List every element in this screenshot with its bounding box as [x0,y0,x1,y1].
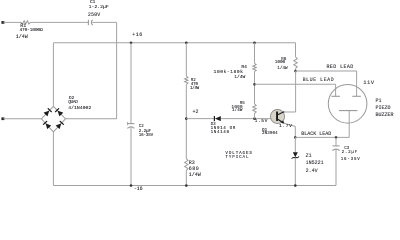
label 1N914 OR [211,127,236,131]
junction: R6 / red lead / collector [294,70,297,73]
label R3 [189,161,195,166]
wire: collector vertical [295,71,297,112]
resistor R3 [185,159,188,171]
label C1 [90,1,95,5]
label +16 [132,33,143,38]
label VOLTAGES [225,152,252,156]
wire: emitter out of Q1 [284,123,295,126]
label R1 [20,24,26,29]
wire: bridge - output down to -16 rail [52,132,54,186]
Q1 collector lead inside [278,112,284,115]
resistor R2 [185,76,188,85]
terminal dot: top AC input [1,21,4,24]
label P1 [376,99,382,104]
wire: R3 to -16 rail [185,171,187,186]
label R6 [281,58,286,62]
wire: rail to R2 [185,43,187,76]
label C3 [344,147,349,151]
label C2 [139,125,144,129]
capacitor C2 [127,123,134,125]
wire: bottom input to bridge left corner [4,118,42,120]
label 1000 [275,61,285,65]
diode D3 [213,116,215,121]
label 2.2uF [342,151,358,155]
label BLACK LEAD [301,132,331,137]
junction: C3 tap on black lead [335,136,338,139]
label 11V [363,80,374,86]
label 1/4W [190,87,199,91]
label 1/4W [234,76,245,81]
label 1-2.2uF [89,6,109,11]
label R2 [191,79,196,83]
wire: red lead into piezo [356,71,358,96]
label 1.5V [255,120,268,125]
label 470-1000ohm [20,29,43,34]
wire: bridge right corner to vertical [66,118,117,120]
resistor R6 [294,57,297,69]
zener Z1 1N5221 [293,152,298,157]
label D3 [211,123,216,127]
capacitor C3 [332,145,339,147]
label 1N4148 [211,131,230,135]
label 2N3904 [262,132,278,136]
label 4/1N4002 [68,107,91,112]
label 680 [189,167,200,172]
wire: emitter down to black node [294,126,296,137]
resistor R4 [253,63,256,71]
junction: R4/R5 node feeding blue lead [253,83,256,86]
label TYPICAL [225,156,249,160]
wire: vertical from C1 down to bridge AC input (crosses +16 rail) [116,22,118,118]
label 1.7V [279,125,292,130]
label 250V [88,13,100,18]
capacitor C1 [87,20,89,25]
label BUZZER [376,113,394,118]
wire: D3 to Q1 base [221,118,276,120]
label 1000 [232,106,243,110]
label 2.4V [306,169,318,174]
bridge diode top-left [44,111,50,117]
wire: blue lead horizontal [255,83,336,85]
piezo electrode plate (red) [352,95,361,97]
junction: +2 node [185,117,188,120]
label 100k-180k [214,71,244,76]
junction: emitter / black lead / Z1 [294,136,297,139]
wire: black node down to Z1 [294,137,296,152]
wire: +2 node to D3 [186,118,214,120]
wire: R6 to red node [295,69,297,71]
wire: top input to R1 [4,21,22,23]
wire: black lead horizontal [295,136,349,138]
wire: blue lead into piezo [335,84,337,96]
label 16-35V [139,134,153,138]
wire: C1 right, to corner [92,21,116,23]
Q1 emitter lead inside [278,119,284,123]
wire: red lead horizontal [296,70,357,72]
junction: R2 top on +16 rail [185,42,188,45]
bridge diode top-right [58,111,64,117]
terminal dot: bottom AC input [1,117,4,120]
label PIEZO [376,106,391,111]
wire: bridge + output up to +16 rail [52,43,54,107]
wire: C3 to -16 rail [335,149,337,186]
wire: R5 to base wire [254,114,256,119]
junction: R3 bottom on -16 rail [185,184,188,187]
label +2 [193,110,199,115]
wire: C2 down to -16 rail [130,126,132,185]
resistor R1 [21,21,31,24]
label 1/4W [232,109,242,113]
wire: R1 to C1 [31,21,89,23]
label 1/4W [16,35,28,40]
piezo electrode plate (blue) [331,95,340,97]
Q1 emitter arrow [281,120,284,124]
junction: R4 top on +16 rail [253,42,256,45]
piezo bottom plate [339,110,357,112]
wire: Z1 to -16 rail [294,158,296,186]
wire: black lead down to C3 [335,137,337,145]
bridge diode bottom-right [56,123,62,129]
label 1N5221 [306,161,324,166]
resistor R5 [253,104,256,114]
label BLUE LEAD [303,78,335,83]
wire: piezo bottom lead down to black lead [348,111,350,138]
transistor Q1 2N3904 [271,110,285,124]
label 16-35V [341,158,361,162]
label D2 [69,97,74,101]
label -16 [134,187,142,192]
wire: rail to R4 [254,43,256,64]
label 2.2uF [139,130,151,134]
piezo buzzer P1 [328,85,367,124]
wire: -16 rail [53,185,336,187]
label 1/4W [189,173,201,178]
wire: +16 rail [53,42,295,44]
label QUAD [68,101,77,105]
label 470 [191,83,198,87]
wire: R2 to R3 through +2 node [185,85,187,159]
label 1/4W [277,67,287,71]
junction: base node / R5 bottom [253,117,256,120]
junction: C2 bottom on -16 rail [130,184,133,187]
bridge rectifier D2 diamond [41,106,53,118]
label R4 [241,66,247,71]
wire: rail down to C2 [130,43,132,124]
wire: collector stub [284,111,296,113]
bridge diode bottom-left [46,123,52,129]
wire: +16 rail corner down to R6 [295,43,297,57]
label Q1 [262,129,267,133]
wire: R4 to R5 [254,72,256,104]
label R5 [240,102,245,106]
junction: Z1 bottom on -16 rail [294,184,297,187]
junction: C2 top on +16 rail [130,42,133,45]
label RED LEAD [327,65,354,70]
label Z1 [306,154,312,159]
